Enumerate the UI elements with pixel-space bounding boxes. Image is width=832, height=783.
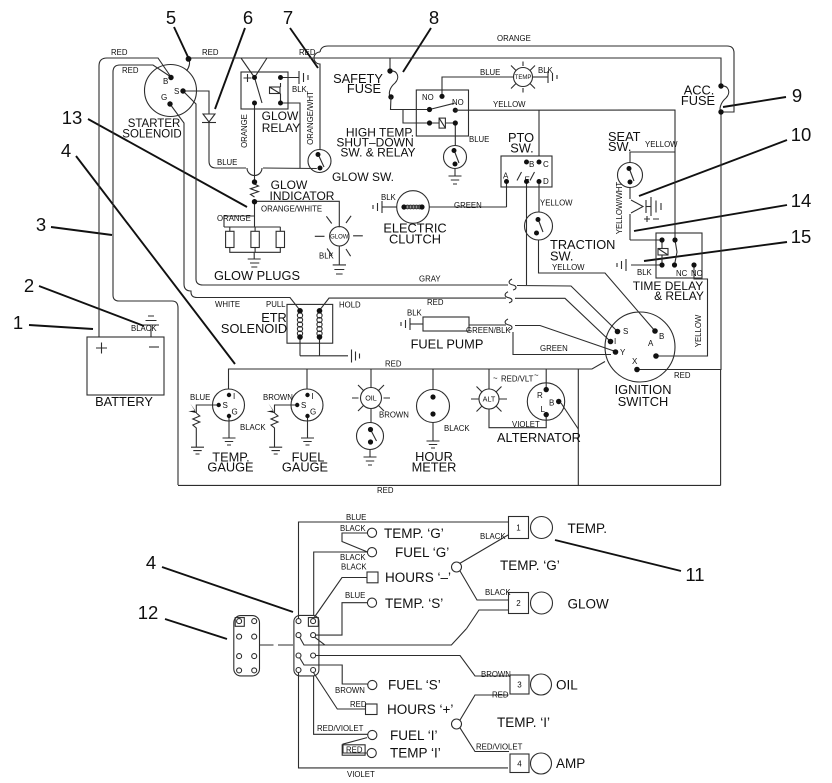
svg-text:VIOLET: VIOLET — [512, 420, 540, 429]
svg-text:ORANGE: ORANGE — [217, 214, 251, 223]
svg-text:11: 11 — [685, 564, 704, 585]
svg-text:RED: RED — [674, 371, 691, 380]
svg-text:10: 10 — [791, 124, 812, 145]
svg-text:G: G — [161, 93, 167, 102]
svg-text:GREEN/BLK: GREEN/BLK — [466, 326, 511, 335]
svg-text:YELLOW: YELLOW — [493, 100, 526, 109]
svg-text:D: D — [543, 177, 549, 186]
svg-text:I: I — [312, 392, 314, 401]
svg-text:BATTERY: BATTERY — [95, 394, 153, 409]
svg-text:TEMP ‘I’: TEMP ‘I’ — [390, 746, 441, 761]
svg-text:BLUE: BLUE — [190, 393, 210, 402]
svg-text:YELLOW: YELLOW — [552, 263, 585, 272]
svg-text:HOURS ‘+’: HOURS ‘+’ — [387, 702, 453, 717]
svg-text:2: 2 — [516, 599, 521, 608]
svg-text:GREEN: GREEN — [454, 201, 482, 210]
svg-text:L: L — [541, 405, 546, 414]
svg-text:GAUGE: GAUGE — [207, 460, 253, 475]
svg-text:B: B — [659, 332, 664, 341]
svg-text:BROWN: BROWN — [335, 686, 365, 695]
svg-text:RED: RED — [202, 48, 219, 57]
svg-text:6: 6 — [243, 7, 253, 28]
svg-text:SOLENOID: SOLENOID — [122, 129, 181, 141]
svg-text:WHITE: WHITE — [215, 300, 240, 309]
svg-text:I: I — [614, 337, 616, 346]
svg-text:FUEL PUMP: FUEL PUMP — [411, 337, 484, 352]
svg-text:YELLOW: YELLOW — [694, 314, 703, 347]
svg-text:9: 9 — [792, 85, 802, 106]
svg-text:FUEL ‘S’: FUEL ‘S’ — [388, 678, 441, 693]
svg-text:HOURS ‘–’: HOURS ‘–’ — [385, 570, 451, 585]
svg-text:4: 4 — [146, 552, 156, 573]
svg-text:FUSE: FUSE — [681, 93, 715, 108]
svg-text:NO: NO — [452, 98, 464, 107]
svg-text:BLUE: BLUE — [469, 135, 489, 144]
svg-text:BLACK: BLACK — [340, 524, 366, 533]
svg-text:BLK: BLK — [407, 309, 423, 318]
svg-text:A: A — [648, 339, 654, 348]
svg-text:12: 12 — [138, 602, 159, 623]
svg-text:3: 3 — [517, 681, 522, 690]
svg-text:RED: RED — [122, 66, 139, 75]
svg-text:14: 14 — [791, 190, 812, 211]
svg-text:~: ~ — [534, 371, 539, 380]
svg-text:BLUE: BLUE — [345, 591, 365, 600]
svg-text:RED: RED — [299, 48, 316, 57]
svg-text:BLACK: BLACK — [341, 563, 367, 572]
svg-text:PULL: PULL — [266, 300, 286, 309]
svg-text:GREEN: GREEN — [540, 344, 568, 353]
svg-text:BLACK: BLACK — [240, 423, 266, 432]
svg-text:BLUE: BLUE — [480, 68, 500, 77]
svg-text:RED/VIOLET: RED/VIOLET — [476, 743, 523, 752]
svg-text:B: B — [529, 160, 534, 169]
svg-text:Y: Y — [620, 348, 626, 357]
svg-text:NO: NO — [691, 269, 703, 278]
svg-text:RED: RED — [427, 298, 444, 307]
svg-text:BLUE: BLUE — [217, 158, 237, 167]
svg-text:ORANGE: ORANGE — [240, 114, 249, 148]
svg-text:BROWN: BROWN — [263, 393, 293, 402]
svg-text:I: I — [233, 392, 235, 401]
svg-text:NC: NC — [676, 269, 688, 278]
svg-text:RED: RED — [111, 48, 128, 57]
svg-text:C: C — [543, 160, 549, 169]
svg-text:TEMP. ‘I’: TEMP. ‘I’ — [497, 715, 550, 730]
svg-text:BLK: BLK — [637, 268, 653, 277]
svg-text:~: ~ — [493, 374, 498, 383]
svg-text:BLACK: BLACK — [480, 532, 506, 541]
svg-text:RELAY: RELAY — [262, 121, 300, 135]
svg-text:ALTERNATOR: ALTERNATOR — [497, 430, 581, 445]
svg-text:R: R — [537, 391, 543, 400]
svg-text:BROWN: BROWN — [481, 670, 511, 679]
svg-text:ALT: ALT — [483, 395, 496, 404]
svg-text:BLK: BLK — [319, 252, 335, 261]
svg-text:FUEL ‘I’: FUEL ‘I’ — [390, 728, 438, 743]
svg-text:TEMP. ‘S’: TEMP. ‘S’ — [385, 596, 443, 611]
svg-text:RED: RED — [346, 746, 363, 755]
svg-text:GRAY: GRAY — [419, 275, 441, 284]
svg-text:BLK: BLK — [538, 66, 554, 75]
svg-text:TEMP.: TEMP. — [568, 521, 608, 536]
svg-text:CLUTCH: CLUTCH — [389, 231, 441, 246]
svg-text:2: 2 — [24, 275, 34, 296]
svg-text:SW.: SW. — [550, 249, 573, 264]
svg-text:8: 8 — [429, 7, 439, 28]
svg-text:FUSE: FUSE — [347, 81, 381, 96]
svg-text:OIL: OIL — [365, 394, 377, 403]
svg-text:13: 13 — [62, 107, 83, 128]
svg-text:RED/VLT: RED/VLT — [501, 375, 534, 384]
svg-text:B: B — [163, 77, 168, 86]
svg-text:S: S — [174, 87, 179, 96]
svg-text:BLUE: BLUE — [346, 513, 366, 522]
svg-text:SWITCH: SWITCH — [618, 394, 668, 409]
svg-text:ORANGE/WHITE: ORANGE/WHITE — [261, 205, 322, 214]
svg-text:A: A — [503, 172, 509, 181]
svg-text:GAUGE: GAUGE — [282, 460, 328, 475]
svg-text:SW. & RELAY: SW. & RELAY — [340, 146, 415, 160]
svg-text:& RELAY: & RELAY — [654, 289, 704, 303]
svg-text:4: 4 — [61, 140, 71, 161]
svg-text:YELLOW/WHT: YELLOW/WHT — [615, 182, 624, 235]
svg-text:BLACK: BLACK — [131, 324, 157, 333]
svg-text:BLACK: BLACK — [340, 553, 366, 562]
svg-text:METER: METER — [412, 460, 457, 475]
svg-text:X: X — [632, 357, 638, 366]
svg-text:GLOW SW.: GLOW SW. — [332, 170, 394, 184]
svg-text:5: 5 — [166, 7, 176, 28]
svg-text:S: S — [223, 401, 228, 410]
svg-text:GLOW: GLOW — [568, 597, 610, 612]
svg-text:3: 3 — [36, 214, 46, 235]
svg-text:4: 4 — [517, 760, 522, 769]
svg-text:G: G — [310, 408, 316, 417]
svg-text:ORANGE/WHT: ORANGE/WHT — [306, 91, 315, 145]
svg-text:E: E — [525, 176, 530, 185]
svg-text:SW.: SW. — [608, 139, 631, 154]
svg-text:TEMP. ‘G’: TEMP. ‘G’ — [384, 526, 444, 541]
svg-text:7: 7 — [283, 7, 293, 28]
svg-text:TEMP: TEMP — [515, 75, 532, 81]
svg-text:AMP: AMP — [556, 756, 585, 771]
svg-text:BLACK: BLACK — [485, 588, 511, 597]
svg-text:SOLENOID: SOLENOID — [221, 321, 287, 336]
svg-text:15: 15 — [791, 226, 812, 247]
svg-text:INDICATOR: INDICATOR — [270, 189, 335, 203]
svg-text:RED/VIOLET: RED/VIOLET — [317, 724, 364, 733]
svg-text:BROWN: BROWN — [379, 411, 409, 420]
svg-text:RED: RED — [350, 700, 367, 709]
svg-text:RED: RED — [492, 691, 509, 700]
svg-text:S: S — [623, 327, 628, 336]
svg-text:RED: RED — [377, 486, 394, 495]
svg-text:ORANGE: ORANGE — [497, 34, 531, 43]
svg-text:FUEL ‘G’: FUEL ‘G’ — [395, 545, 449, 560]
svg-text:TEMP. ‘G’: TEMP. ‘G’ — [500, 558, 560, 573]
svg-text:NO: NO — [422, 93, 434, 102]
svg-text:GLOW: GLOW — [330, 235, 349, 241]
svg-text:OIL: OIL — [556, 678, 578, 693]
svg-text:BLACK: BLACK — [444, 424, 470, 433]
svg-text:1: 1 — [13, 312, 23, 333]
svg-text:BLK: BLK — [381, 193, 397, 202]
svg-text:G: G — [232, 408, 238, 417]
svg-text:GLOW PLUGS: GLOW PLUGS — [214, 268, 300, 283]
svg-text:YELLOW: YELLOW — [645, 140, 678, 149]
svg-text:B: B — [549, 399, 554, 408]
svg-text:VIOLET: VIOLET — [347, 770, 375, 779]
svg-text:1: 1 — [516, 524, 521, 533]
svg-text:HOLD: HOLD — [339, 301, 361, 310]
svg-text:SW.: SW. — [510, 141, 533, 156]
svg-text:S: S — [301, 401, 306, 410]
svg-text:YELLOW: YELLOW — [540, 199, 573, 208]
svg-text:RED: RED — [385, 360, 402, 369]
